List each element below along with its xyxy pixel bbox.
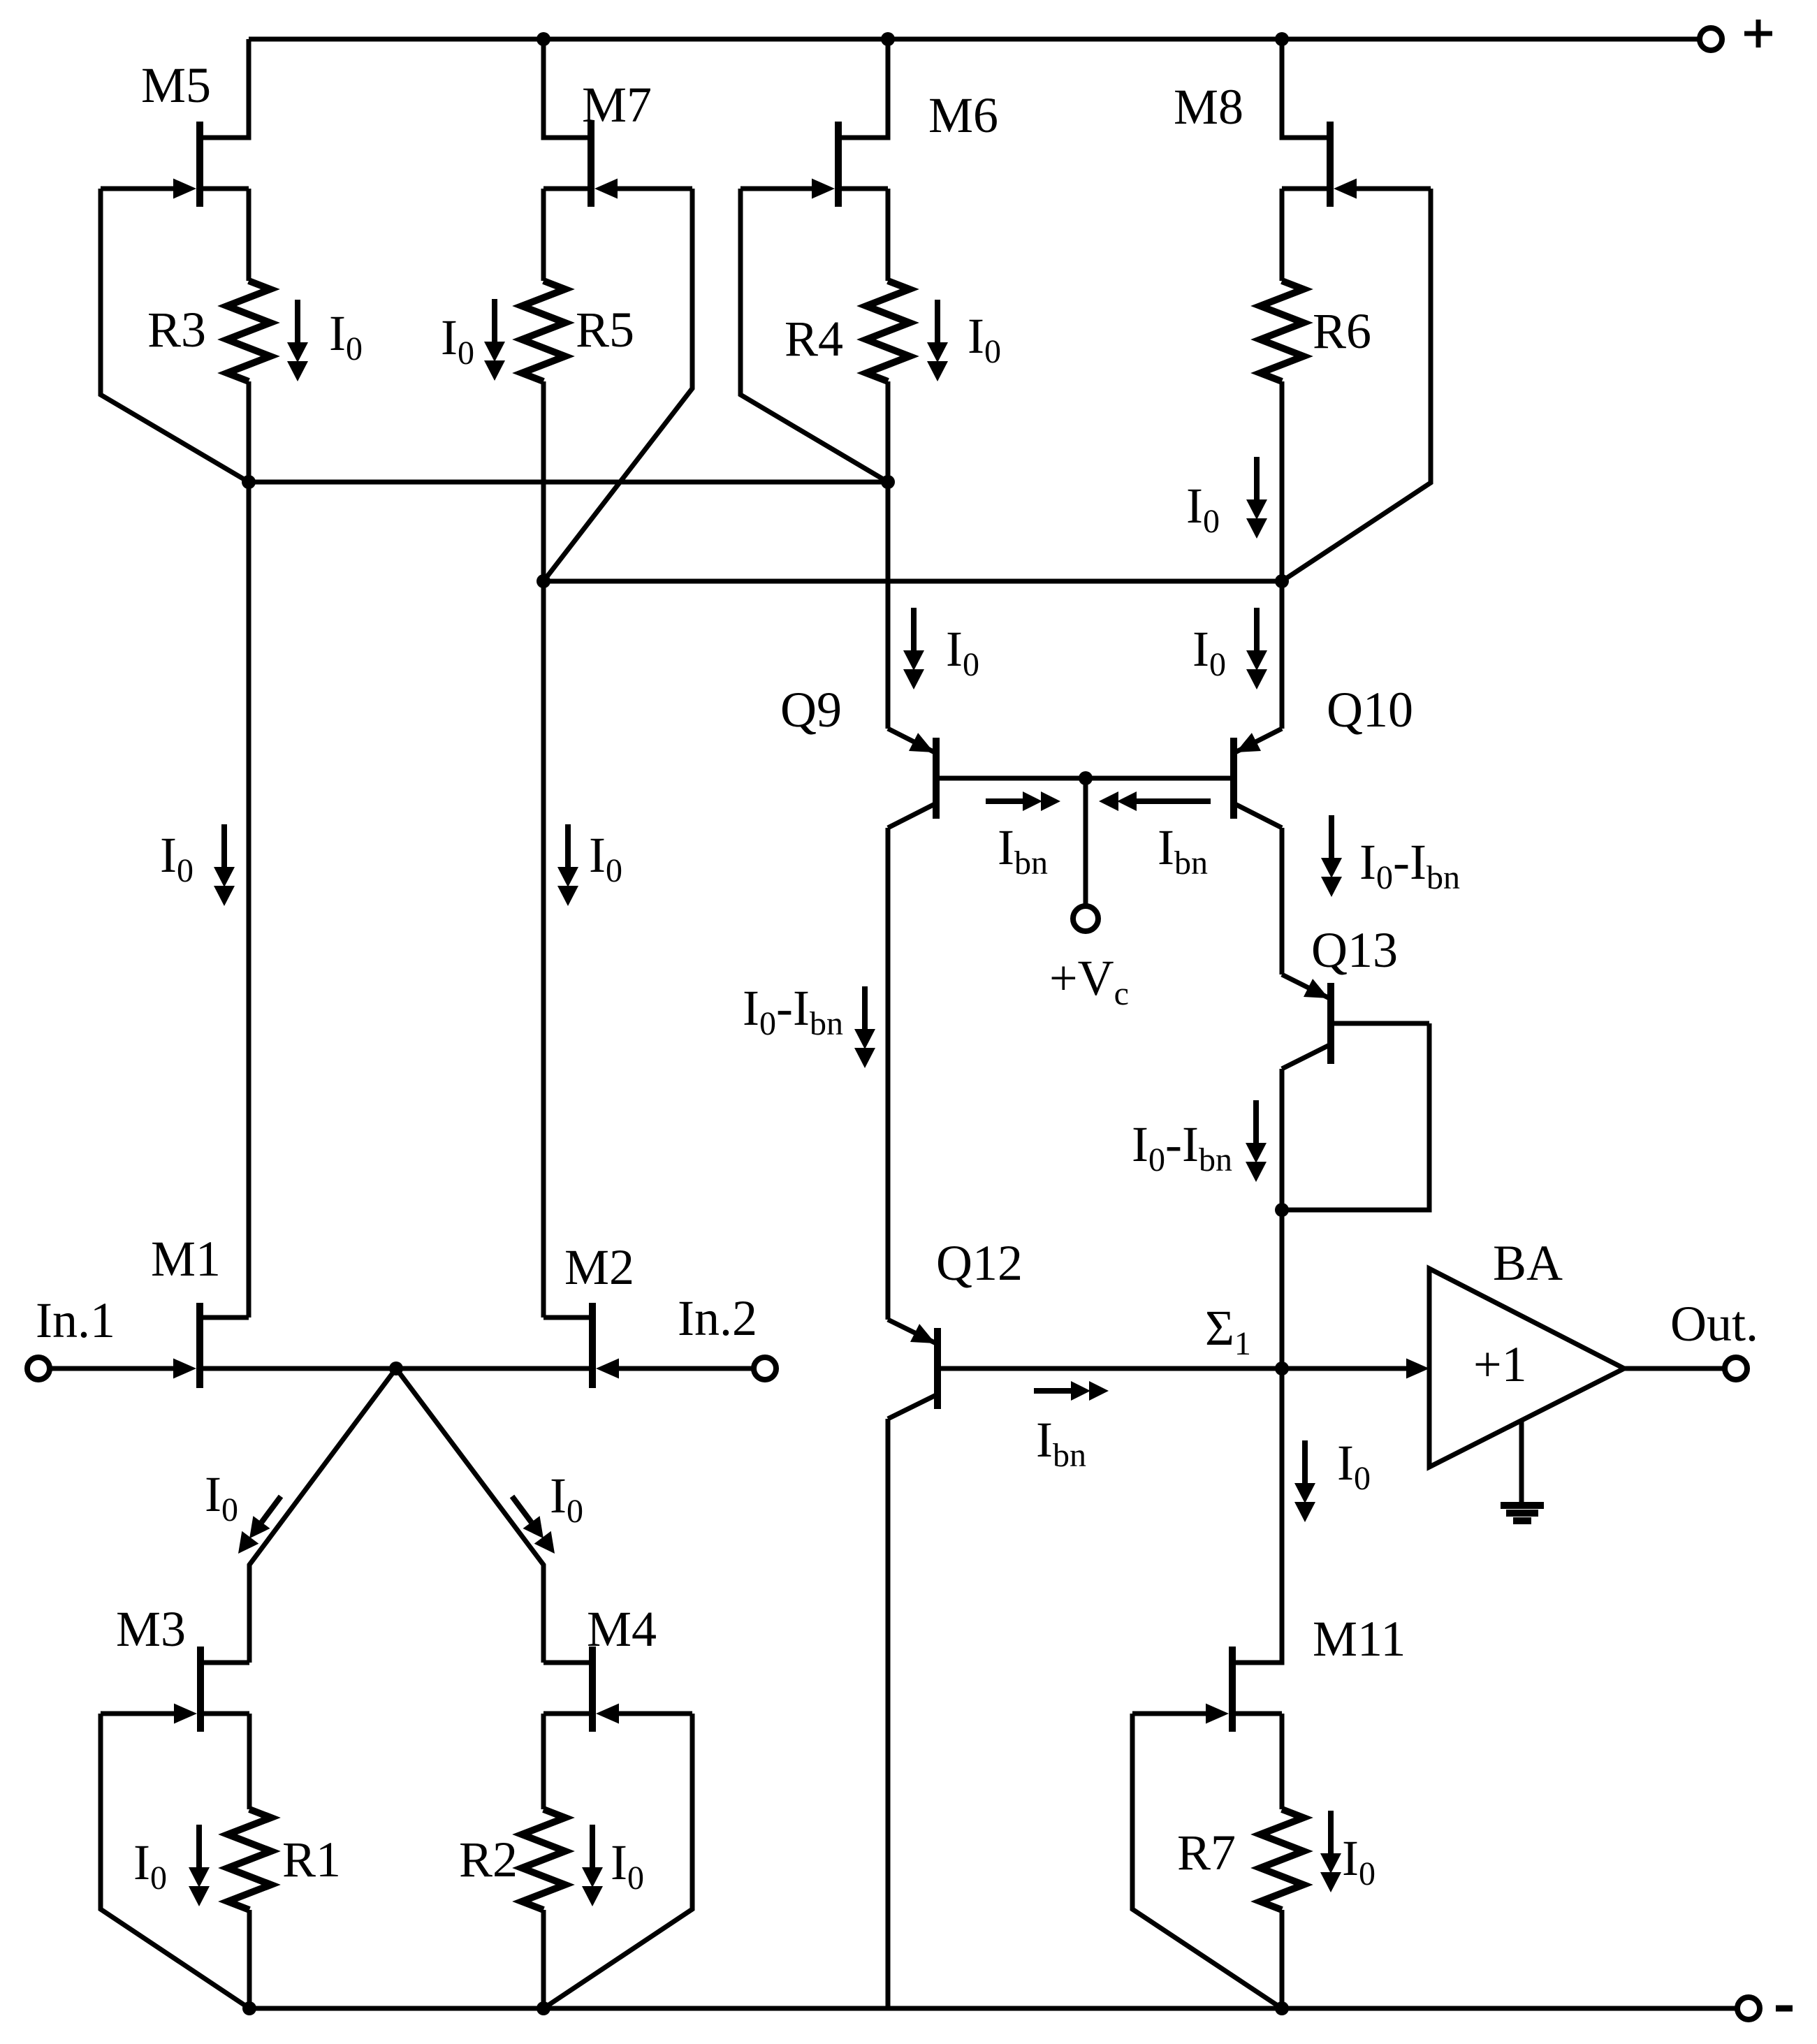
label Q12 <box>936 1235 1023 1291</box>
svg-text:I0-Ibn: I0-Ibn <box>1359 834 1460 896</box>
wire Q9 collector to Q12 emitter <box>886 828 891 1320</box>
wire M5 source to R3 <box>247 189 251 281</box>
svg-text:M5: M5 <box>141 57 211 113</box>
transistor M7 <box>543 122 692 207</box>
resistor R3 <box>227 281 270 381</box>
svg-text:Ibn: Ibn <box>1036 1412 1086 1474</box>
wire R4 bottom lead <box>886 381 891 482</box>
svg-text:I0: I0 <box>589 827 622 889</box>
wire positive supply rail <box>249 37 1698 42</box>
wire BA output <box>1624 1366 1723 1371</box>
label I0 at R7 <box>1342 1830 1375 1892</box>
op-amp BA unity buffer <box>1406 1269 1624 1467</box>
svg-text:I0: I0 <box>205 1466 238 1528</box>
label In.2 <box>678 1290 757 1346</box>
transistor M3 <box>101 1647 249 1732</box>
svg-text:M11: M11 <box>1313 1611 1406 1667</box>
label I0-Ibn Q10 side <box>1359 834 1460 896</box>
wire M7 source to R5 <box>541 189 546 281</box>
label M4 <box>587 1601 657 1657</box>
svg-text:R3: R3 <box>147 302 206 358</box>
current arrow I0 M2 drain <box>557 824 578 906</box>
wire Q13 collector down <box>1280 1069 1285 1368</box>
wire M11 gate loop to R7 bottom node <box>1132 1714 1282 2008</box>
wire M3 source to R1 <box>247 1714 252 1809</box>
label Ibn Q12 <box>1036 1412 1086 1474</box>
svg-text:Q12: Q12 <box>936 1235 1023 1291</box>
wire Q12 collector to - rail <box>886 1419 891 2008</box>
label M8 <box>1174 79 1243 135</box>
wire M8 source to R6 <box>1280 189 1285 281</box>
wire M6 drain from + rail <box>842 39 888 138</box>
svg-text:+1: +1 <box>1473 1336 1527 1392</box>
current arrow I0 tail left <box>238 1496 281 1554</box>
wire M1 drain stub column <box>247 1315 251 1317</box>
label I0-Ibn Q9 side <box>743 980 843 1042</box>
current arrow I0 at R1 <box>189 1825 210 1906</box>
terminal - supply <box>1737 1997 1793 2020</box>
wire M3 gate loop to R1 bottom node <box>101 1714 249 2008</box>
wire tail diagonal to M3 <box>249 1368 396 1663</box>
transistor M1 <box>173 1303 396 1388</box>
svg-text:M2: M2 <box>564 1239 634 1295</box>
label I0 Q9 emitter <box>946 621 979 683</box>
label M3 <box>116 1601 186 1657</box>
transistor M4 <box>543 1647 692 1732</box>
svg-text:Σ1: Σ1 <box>1205 1300 1251 1362</box>
svg-text:M4: M4 <box>587 1601 657 1657</box>
current arrow I0 below sigma1 <box>1294 1440 1315 1522</box>
label I0 below R6 <box>1186 478 1220 540</box>
current arrow Ibn Q12 base <box>1034 1381 1109 1401</box>
label R4 <box>785 311 843 367</box>
label R7 <box>1177 1825 1236 1881</box>
transistor Q13 <box>1282 974 1429 1069</box>
wire M4 gate loop to R2 bottom node <box>543 1714 692 2008</box>
label I0 at R3 <box>329 305 363 367</box>
wire Q13 base loop <box>1282 1023 1429 1210</box>
wire M8 drain from + rail <box>1282 39 1327 138</box>
terminal In.2 <box>754 1357 776 1380</box>
wire M8 gate loop to R6 bottom node <box>1282 189 1431 581</box>
svg-text:+Vc: +Vc <box>1049 950 1129 1012</box>
wire M4 source to R2 <box>541 1714 546 1809</box>
label R6 <box>1313 303 1371 359</box>
node A R3 bottom <box>242 475 256 489</box>
resistor R2 <box>522 1809 565 1910</box>
node Vc base junction <box>1079 771 1093 785</box>
label I0 M2 drain <box>589 827 622 889</box>
label Q13 <box>1311 922 1398 978</box>
svg-text:In.2: In.2 <box>678 1290 757 1346</box>
wire Q10 collector down <box>1280 828 1285 974</box>
transistor Q12 <box>888 1320 1406 1419</box>
label I0 tail right <box>550 1468 583 1530</box>
svg-text:R1: R1 <box>282 1832 341 1888</box>
svg-text:I0: I0 <box>1342 1830 1375 1892</box>
current arrow I0 at R7 <box>1320 1811 1341 1892</box>
svg-text:I0: I0 <box>550 1468 583 1530</box>
label I0 tail left <box>205 1466 238 1528</box>
wire R2 bottom lead <box>541 1910 546 2008</box>
svg-text:R4: R4 <box>785 311 843 367</box>
current arrow I0 M1 drain <box>214 824 235 906</box>
node Q13 collector-base junction <box>1275 1203 1289 1217</box>
svg-text:I0: I0 <box>1186 478 1220 540</box>
current arrow I0 at R5 <box>484 299 505 381</box>
node tail of differential pair <box>389 1362 403 1375</box>
svg-text:M7: M7 <box>582 77 652 133</box>
svg-text:M8: M8 <box>1174 79 1243 135</box>
svg-text:I0-Ibn: I0-Ibn <box>1132 1116 1232 1178</box>
wire M7 drain from + rail <box>543 39 588 138</box>
label R3 <box>147 302 206 358</box>
current arrow I0-Ibn Q13 collector <box>1246 1100 1267 1182</box>
label R5 <box>576 302 634 358</box>
svg-text:I0: I0 <box>160 827 194 889</box>
svg-text:I0: I0 <box>968 308 1001 370</box>
label I0 at R4 <box>968 308 1001 370</box>
wire R3 bottom lead <box>247 381 251 482</box>
label +1 <box>1473 1336 1527 1392</box>
wire +Vc stem <box>1083 778 1088 906</box>
resistor R7 <box>1260 1809 1304 1910</box>
svg-text:R7: R7 <box>1177 1825 1236 1881</box>
resistor R6 <box>1260 281 1304 381</box>
label R2 <box>459 1832 518 1888</box>
svg-text:Q13: Q13 <box>1311 922 1398 978</box>
resistor R1 <box>228 1809 271 1910</box>
terminal Out <box>1725 1357 1747 1380</box>
wire net R5-R6 bottoms <box>543 579 1282 584</box>
label BA <box>1493 1235 1563 1291</box>
wire M1 drain column <box>247 482 251 1317</box>
svg-text:M3: M3 <box>116 1601 186 1657</box>
label sigma1 <box>1205 1300 1251 1362</box>
label M6 <box>928 87 998 143</box>
svg-text:In.1: In.1 <box>36 1292 115 1348</box>
label Out. <box>1670 1296 1758 1352</box>
current arrow I0 at R4 <box>927 300 948 381</box>
node R1 bottom <box>242 2001 256 2015</box>
terminal +Vc <box>1073 906 1098 931</box>
transistor M6 <box>740 122 888 207</box>
label M1 <box>151 1231 221 1287</box>
wire M6 gate loop to R4 bottom node <box>740 189 888 482</box>
current arrow I0 tail right <box>512 1496 555 1554</box>
wire Q9 emitter column <box>886 482 891 729</box>
label I0 M1 drain <box>160 827 194 889</box>
label I0 below sigma1 <box>1337 1435 1371 1497</box>
wire sigma1 to M11 drain <box>1236 1368 1282 1663</box>
transistor M11 <box>1132 1647 1282 1732</box>
label Q9 <box>780 682 842 738</box>
transistor M8 <box>1282 122 1431 207</box>
svg-text:R5: R5 <box>576 302 634 358</box>
wire R7 bottom lead <box>1280 1910 1285 2008</box>
svg-text:Out.: Out. <box>1670 1296 1758 1352</box>
label In.1 <box>36 1292 115 1348</box>
svg-text:I0: I0 <box>946 621 979 683</box>
transistor Q9 <box>888 729 1086 828</box>
resistor R4 <box>866 281 910 381</box>
label I0 at R2 <box>611 1834 644 1897</box>
current arrow Ibn Q9 base <box>986 791 1060 811</box>
node R2 bottom <box>537 2001 550 2015</box>
svg-text:I0: I0 <box>1192 621 1226 683</box>
svg-text:M1: M1 <box>151 1231 221 1287</box>
svg-text:R6: R6 <box>1313 303 1371 359</box>
svg-text:I0: I0 <box>329 305 363 367</box>
svg-text:R2: R2 <box>459 1832 518 1888</box>
svg-text:I0: I0 <box>133 1834 167 1897</box>
current arrow I0-Ibn Q9 collector <box>854 986 875 1068</box>
node B R5 bottom <box>537 574 550 588</box>
label I0 at R5 <box>441 309 474 372</box>
svg-text:Q10: Q10 <box>1327 682 1413 738</box>
label I0 Q10 emitter <box>1192 621 1226 683</box>
wire M2 drain column <box>541 581 546 1317</box>
svg-text:Q9: Q9 <box>780 682 842 738</box>
wire Q10 emitter column <box>1280 581 1285 729</box>
current arrow I0 at R3 <box>287 300 308 381</box>
svg-text:I0: I0 <box>441 309 474 372</box>
current arrow I0 Q10 emitter <box>1246 608 1267 689</box>
label I0-Ibn Q13 side <box>1132 1116 1232 1178</box>
label M7 <box>582 77 652 133</box>
terminal + supply <box>1700 20 1772 50</box>
wire negative supply rail <box>249 2006 1737 2011</box>
node C R4 bottom <box>881 475 895 489</box>
svg-text:BA: BA <box>1493 1235 1563 1291</box>
node top rail M6 drain junction <box>881 32 895 46</box>
label I0 at R1 <box>133 1834 167 1897</box>
terminal In.1 <box>27 1357 50 1380</box>
label +Vc <box>1049 950 1129 1012</box>
node sigma1 junction <box>1275 1362 1289 1375</box>
wire R6 bottom lead <box>1280 381 1285 581</box>
wire M7 gate loop to R5 bottom node <box>543 189 692 581</box>
label R1 <box>282 1832 341 1888</box>
current arrow I0 below R6 <box>1246 457 1267 539</box>
transistor Q10 <box>1086 729 1282 828</box>
wire net R3-R4 bottoms <box>249 480 888 485</box>
label Ibn right <box>1158 819 1208 882</box>
node D R6 bottom <box>1275 574 1289 588</box>
svg-text:Ibn: Ibn <box>998 819 1048 882</box>
wire tail diagonal to M4 <box>396 1368 543 1663</box>
node R7 bottom <box>1275 2001 1289 2015</box>
current arrow Ibn Q10 base <box>1099 791 1211 811</box>
label M5 <box>141 57 211 113</box>
transistor M5 <box>101 122 249 207</box>
svg-text:M6: M6 <box>928 87 998 143</box>
resistor R5 <box>522 281 565 381</box>
svg-text:I0: I0 <box>611 1834 644 1897</box>
svg-text:Ibn: Ibn <box>1158 819 1208 882</box>
wire M5 gate loop to R3 bottom node <box>101 189 249 482</box>
current arrow I0-Ibn Q10 collector <box>1321 815 1342 897</box>
wire R5 bottom lead <box>541 381 546 581</box>
svg-text:I0: I0 <box>1337 1435 1371 1497</box>
label M2 <box>564 1239 634 1295</box>
wire M11 source to R7 <box>1280 1714 1285 1809</box>
wire R1 bottom lead <box>247 1910 252 2008</box>
node top rail M8 drain junction <box>1275 32 1289 46</box>
label M11 <box>1313 1611 1406 1667</box>
label Ibn left <box>998 819 1048 882</box>
current arrow I0 Q9 emitter <box>903 608 924 689</box>
node top rail M7 drain junction <box>537 32 550 46</box>
svg-text:I0-Ibn: I0-Ibn <box>743 980 843 1042</box>
ground <box>1501 1420 1544 1521</box>
current arrow I0 at R2 <box>582 1825 603 1906</box>
wire M6 source to R4 <box>886 189 891 281</box>
wire M5 drain from + rail <box>203 39 249 138</box>
wire In.2 to M2 gate <box>619 1366 754 1371</box>
label Q10 <box>1327 682 1413 738</box>
wire In.1 to M1 gate <box>50 1366 175 1371</box>
transistor M2 <box>396 1303 619 1388</box>
